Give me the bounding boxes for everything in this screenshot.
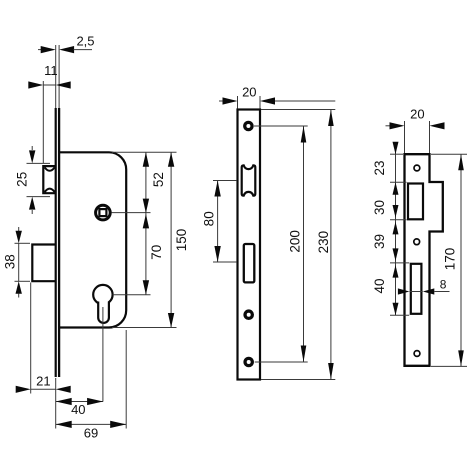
chain dimension extension lines (strike left) [390,153,403,155]
strike top extension [431,153,467,155]
deadbolt cutout (strike plate) [411,264,422,314]
dimension 170 line [460,154,462,366]
faceplate extension lines above (side view) [55,45,57,108]
strike bottom extension [431,365,467,367]
dimension 230 line [330,110,332,380]
svg-text:170: 170 [443,248,458,271]
svg-text:70: 70 [149,245,164,260]
strike plate outline [405,154,443,366]
faceplate top extension [261,109,335,111]
deadbolt cutout in faceplate [244,244,255,282]
leader from keyhole [113,294,151,296]
deadbolt (side view) [32,245,56,282]
svg-text:25: 25 [15,172,30,187]
dimension 69 line [56,423,127,425]
dimension 2,5 arrows and leader [38,49,41,51]
svg-text:40: 40 [71,402,85,417]
screw hole middle (faceplate) [243,309,254,320]
screw hole top (strike) [414,165,420,171]
dimension 40 line [56,401,103,403]
leader screw hole top [254,125,308,127]
dimension 25 arrows [31,146,33,150]
dimension 11 line and arrows [43,84,55,86]
dimension 20 line (faceplate) [219,100,223,102]
dimension 200 line [303,126,305,362]
screw hole bottom (strike) [414,351,420,357]
case bottom extension line [112,327,177,329]
euro cylinder keyhole [93,285,112,304]
square spindle hole [96,205,111,220]
svg-text:38: 38 [3,254,18,269]
svg-text:2,5: 2,5 [76,34,94,49]
dimension 8 arrows [398,288,410,294]
svg-text:21: 21 [36,373,50,388]
dimension 38 line and arrows [18,227,20,231]
dimension 21 line [31,388,56,390]
extension line deadbolt face [30,283,32,394]
faceplate side view (2.5mm plate edge-on) [55,108,57,377]
svg-text:39: 39 [372,234,387,249]
leader from spindle hole [112,212,151,214]
extension line faceplate bottom [55,378,57,429]
screw hole middle (strike) [414,239,420,245]
chain dimension line 23-30-39-40 [395,143,397,315]
dimension 20 extension lines (strike) [404,121,406,153]
faceplate bottom extension [261,379,335,381]
dimension 38 extension lines [15,242,31,244]
leader screw hole bottom [255,361,308,363]
case top extension line [112,151,177,153]
svg-text:200: 200 [287,230,302,253]
dimension 20 line (strike) [386,125,391,127]
dimension 52-70 line [145,152,147,294]
screw hole top (faceplate) [243,121,254,132]
faceplate front outline [238,110,261,380]
screw hole bottom (faceplate) [243,357,254,368]
svg-text:230: 230 [316,231,331,254]
dimension 20 extension lines (faceplate) [237,96,239,109]
svg-text:11: 11 [44,63,58,78]
dimension 80 line [217,181,219,263]
extension line case right edge [125,330,127,429]
extension line from keyhole center [102,307,104,402]
dimension 25 extension lines [27,162,51,164]
dimension 150 line [170,152,172,327]
svg-text:8: 8 [440,277,447,291]
latch cutout in faceplate [242,165,256,195]
svg-text:69: 69 [84,426,98,441]
svg-text:80: 80 [202,211,217,226]
svg-text:150: 150 [174,229,189,252]
svg-text:20: 20 [410,107,424,122]
dimension 80 leaders [213,180,236,182]
svg-text:40: 40 [372,278,387,293]
latch bolt (side view) [43,166,56,193]
lock case outline [59,152,126,327]
latch cutout (strike plate) [408,184,423,220]
svg-text:23: 23 [372,160,387,175]
svg-text:20: 20 [242,85,256,100]
svg-text:30: 30 [372,200,387,215]
svg-text:52: 52 [151,172,166,187]
